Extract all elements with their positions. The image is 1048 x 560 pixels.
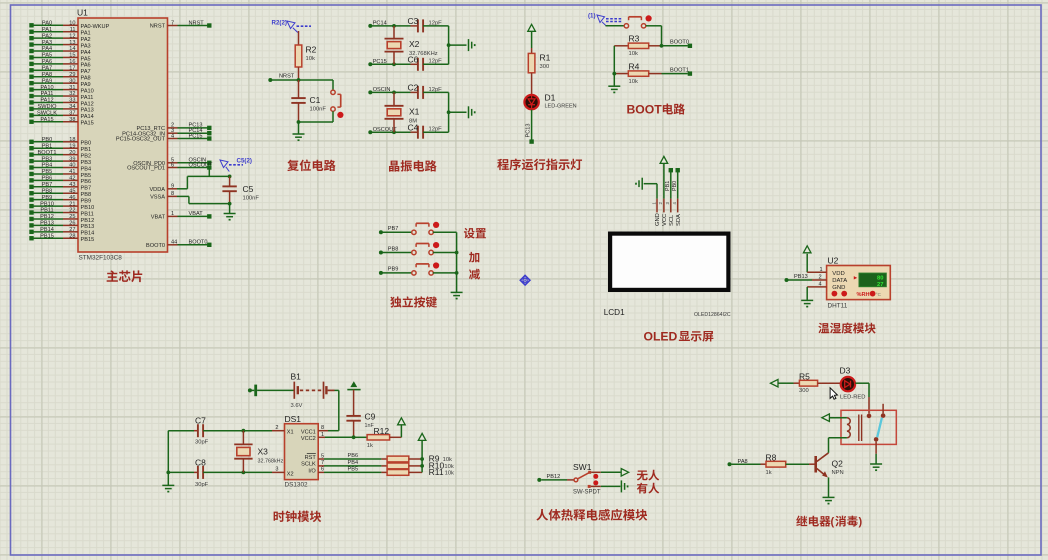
net label BOOT0 [670,40,689,46]
svg-text:R11: R11 [429,467,444,477]
resistor R4 [614,71,661,76]
wire emitter to ground [828,477,830,497]
svg-text:PA7: PA7 [81,69,91,75]
svg-text:C7: C7 [195,416,206,426]
svg-text:C5(2): C5(2) [237,157,252,164]
svg-text:VCC: VCC [662,214,668,226]
C9 reference label [365,412,376,422]
svg-text:PB6: PB6 [348,453,359,459]
wire to side ground [449,44,467,46]
caption 继电器(消毒) [796,516,862,528]
wire PB12 to switch [541,479,574,481]
C3 reference label [408,16,419,26]
C2 reference label [408,83,419,93]
B1 value 3.6V [291,403,303,409]
svg-text:PB1: PB1 [665,181,671,191]
terminal PB9 [379,267,398,275]
svg-text:PB7: PB7 [42,182,53,188]
svg-text:VDD: VDD [832,271,844,277]
pin PA5 (15) wire + net label [29,53,90,63]
svg-text:PB7: PB7 [388,226,399,232]
svg-text:PB5: PB5 [81,173,92,179]
C8 reference label [195,457,206,467]
svg-text:▶: ▶ [854,275,858,280]
svg-text:OLED: OLED [644,330,678,344]
svg-text:43: 43 [69,182,75,188]
svg-text:PB6: PB6 [81,179,92,185]
X1 reference label [409,106,420,116]
pin PB1 (19) wire + net label [29,143,91,153]
LCD1 reference label [604,308,625,317]
crystal X1 [385,92,404,132]
svg-text:1: 1 [321,432,324,438]
svg-text:6: 6 [171,162,174,168]
push button PB8 [412,242,440,255]
svg-text:4: 4 [819,282,822,288]
R4 value 10k [629,79,638,85]
svg-text:BOOT0: BOOT0 [189,240,208,246]
R2 reference label [306,45,317,55]
R3 value 10k [629,51,638,57]
svg-text:PA4: PA4 [42,46,52,52]
svg-text:DHT11: DHT11 [828,303,848,310]
pin label SCL [669,214,675,226]
svg-text:PB15: PB15 [40,233,54,239]
pin 8 VCC1 wire [318,425,328,431]
pin 2 X1 wire [243,425,284,431]
resistor R12 [354,435,402,440]
svg-text:PB11: PB11 [81,211,94,217]
svg-text:39: 39 [69,156,75,162]
svg-text:12pF: 12pF [429,20,443,26]
svg-text:C2: C2 [408,83,419,93]
svg-text:PB12: PB12 [547,474,561,480]
svg-text:PB8: PB8 [388,246,399,252]
wire D3 to relay contact [855,383,869,413]
svg-text:1: 1 [820,267,823,273]
wire button bottom [332,111,334,122]
U2 reference label [828,255,839,265]
svg-text:RST: RST [305,455,317,461]
svg-text:PB9: PB9 [42,195,53,201]
svg-text:PB0: PB0 [42,137,53,143]
terminal BOOT1 [688,71,692,75]
R10 reference label [429,460,454,470]
pin PB15 (28) wire + net label [29,233,94,243]
D3 reference label [840,365,851,375]
wire OSCOUT row [370,130,410,134]
svg-text:NRST: NRST [189,20,205,26]
push button reset [331,90,344,118]
R2 value 10k [306,56,315,62]
svg-text:D3: D3 [840,365,851,375]
svg-text:SCL: SCL [669,214,675,226]
svg-text:10k: 10k [629,51,638,57]
switch SW1 SW-SPDT [574,471,598,488]
pin PB12 (25) wire + net label [29,214,94,224]
caption 减 [469,269,480,280]
svg-text:40: 40 [69,163,75,169]
C5 value 100nF [243,196,260,202]
R5 reference label [799,371,810,381]
svg-text:SW-SPDT: SW-SPDT [573,489,601,495]
svg-text:PA13: PA13 [81,108,94,114]
svg-text:2: 2 [819,275,822,281]
svg-text:PB5: PB5 [42,169,53,175]
wire PB7 to button [381,231,412,233]
svg-text:PB8: PB8 [81,192,92,198]
relay RL1 body [841,410,896,444]
C8 value 30pF [195,482,209,488]
terminal OSCIN [368,87,390,94]
resistor R11 [381,470,422,476]
R8 value 1k [766,470,772,476]
svg-text:%RH: %RH [857,292,870,298]
C5 reference label [243,184,254,194]
push button PB7 [412,222,440,235]
svg-text:PA10: PA10 [81,88,94,94]
svg-text:PA15: PA15 [81,121,94,127]
svg-text:C4: C4 [408,122,419,132]
capacitor C8 [194,466,243,479]
svg-text:BOOT0: BOOT0 [670,40,689,46]
pin 1 VCC2 wire [318,432,353,438]
arrow terminal relay coil [822,414,830,422]
svg-text:C8: C8 [195,457,206,467]
pin PB0 (18) wire + net label [29,137,91,147]
pin OSCOUT_PD1 (6) net OSCOUT [127,162,213,171]
svg-text:GND: GND [832,285,845,291]
pin 5 RST wire net PB6 [318,453,381,459]
wire button to corner [646,26,662,46]
relay contacts [867,404,886,442]
svg-text:NPN: NPN [832,470,844,476]
caption 程序运行指示灯 [497,159,582,171]
svg-text:X1: X1 [409,106,420,116]
svg-text:10k: 10k [444,464,453,470]
svg-text:B1: B1 [291,372,302,382]
pin VSSA (8) wire [150,191,189,200]
LED D1 [524,95,538,109]
pin PB5 (41) wire + net label [29,169,91,179]
capacitor C7 [194,424,243,437]
net label PC13 vertical [526,124,532,138]
wire PC15 row [370,62,410,66]
pin label VCC [662,214,668,226]
svg-text:PA5: PA5 [81,56,91,62]
svg-text:31: 31 [69,85,75,91]
pin PB11 (22) wire + net label [29,208,93,218]
OLED pin 3 SCL [665,199,671,213]
pin VDDA (9) wire [149,184,187,193]
svg-text:44: 44 [171,240,177,246]
svg-text:PB12: PB12 [40,214,54,220]
svg-text:30pF: 30pF [195,482,209,488]
pin PA9 (30) wire + net label [29,78,90,88]
svg-text:R2(2): R2(2) [272,20,287,27]
svg-text:PA5: PA5 [42,53,52,59]
svg-text:34: 34 [69,104,75,110]
caption 主芯片 [107,270,143,282]
svg-text:PC15-OSC32_OUT: PC15-OSC32_OUT [116,137,166,143]
svg-text:BOOT0: BOOT0 [146,243,165,249]
arrow terminal R5 input [771,379,794,387]
wire upper throw [591,471,621,473]
U2 indicator dots [832,291,882,298]
svg-text:10: 10 [69,21,75,27]
wire to BOOT1 terminal [662,73,688,75]
svg-text:PA2: PA2 [42,33,52,39]
svg-text:X3: X3 [258,447,269,457]
wire VSSA loop bottom [189,196,230,203]
crystal X2 [385,26,404,64]
Q2 value NPN [832,470,844,476]
crystal X3 [234,429,252,474]
svg-text:19: 19 [69,143,75,149]
pin PB7 (43) wire + net label [29,182,91,192]
ground clock left [162,485,174,491]
U2 value DHT11 [828,303,848,310]
svg-text:14: 14 [69,46,75,52]
resistor R2 [295,45,302,67]
terminal PB13 [785,278,789,282]
caption 独立按键 [390,296,437,307]
wire button PB8 to bus [433,252,457,254]
resistor R1 [528,53,535,72]
pin PA6 (16) wire + net label [29,59,90,69]
svg-text:30: 30 [69,78,75,84]
ground below C5 [224,214,236,220]
svg-text:C5: C5 [243,184,254,194]
wire OSCOUT terminal to C5 net [208,170,210,177]
svg-text:6: 6 [321,467,324,473]
svg-text:C9: C9 [365,412,376,422]
caption BOOT电路 [627,103,685,117]
relay core [859,415,862,442]
pin PA7 (17) wire + net label [29,66,90,76]
power terminal DHT11 VCC [803,246,811,272]
pin 6 I/O wire net PB5 [318,466,381,472]
LCD1 OLED display body [608,232,731,293]
svg-text:DS1302: DS1302 [285,482,309,489]
D1 reference label [545,93,556,103]
wire GND to ground [806,287,808,300]
svg-text:C6: C6 [408,55,419,65]
wire left bus to ground [612,46,616,86]
wire PB8 to button [381,252,412,254]
wire relay common to ground [875,442,877,464]
IC DS1 DS1302 body [285,424,319,480]
svg-text:80: 80 [877,275,883,281]
svg-text:PA9: PA9 [42,78,52,84]
wire D1 to PC13 terminal [531,110,533,142]
C2 value 12pF [429,87,443,93]
pin PA4 (14) wire + net label [29,46,90,56]
C7 value 30pF [195,440,209,446]
wire button PB9 to bus [433,272,457,274]
capacitor C1 [291,80,305,122]
junction at C5 bottom [228,202,232,206]
capacitor C2 [411,86,449,99]
blue route marker (1) [588,13,622,26]
side ground [469,106,475,118]
svg-text:12pF: 12pF [429,127,443,133]
svg-text:PC15: PC15 [189,133,203,139]
svg-text:VBAT: VBAT [189,211,204,217]
svg-text:PB9: PB9 [81,198,92,204]
pin SWCLK (37) wire + net label [29,111,93,121]
terminal OSCOUT [368,127,397,134]
X3 reference label [258,447,269,457]
svg-text:PB1: PB1 [42,143,53,149]
wire to BOOT0 terminal [662,45,688,47]
svg-text:U1: U1 [77,8,88,18]
svg-text:PB4: PB4 [42,163,53,169]
svg-text:PB0: PB0 [672,181,678,191]
R3 reference label [629,34,640,44]
wire GND pin to side ground [644,184,657,199]
svg-text:PB9: PB9 [388,267,399,273]
pin PB4 (40) wire + net label [29,163,91,173]
svg-text:33: 33 [69,98,75,104]
wire C5 to ground [229,204,231,213]
svg-text:PB15: PB15 [81,237,95,243]
terminal PC15 [368,59,386,66]
arrow terminal upper [621,469,629,477]
mouse cursor [830,388,837,399]
terminal PB12 [537,474,560,482]
svg-text:PB7: PB7 [81,186,92,192]
SW1 reference label [573,462,592,472]
pin PB9 (46) wire + net label [29,195,91,205]
wire to button top [332,80,334,90]
wire right bus keys [455,232,459,292]
relay coil [829,418,851,438]
svg-text:PA7: PA7 [42,66,52,72]
svg-text:PB10: PB10 [40,201,54,207]
pin BOOT1 (20) wire + net label [29,150,91,160]
svg-text:D1: D1 [545,93,556,103]
pin PB6 (42) wire + net label [29,176,91,186]
pin PB8 (45) wire + net label [29,188,91,198]
X2 value 32.768KHz [409,51,438,57]
svg-text:3: 3 [275,467,278,473]
svg-text:PA12: PA12 [81,101,94,107]
pin PB14 (27) wire + net label [29,227,94,237]
pin PA3 (13) wire + net label [29,40,90,50]
OLED pin 1 GND [651,199,657,213]
svg-text:27: 27 [69,227,75,233]
svg-text:5: 5 [321,453,324,459]
pin PA11 (32) wire + net label [29,91,93,101]
wire into BOOT button [606,25,625,27]
svg-text:16: 16 [69,59,75,65]
C1 reference label [310,95,321,105]
pin PA10 (31) wire + net label [29,85,93,95]
svg-text:PB13: PB13 [40,221,54,227]
svg-text:46: 46 [69,195,75,201]
terminal PB7 [379,226,398,234]
junction BOOT0 node [660,44,664,48]
svg-text:BOOT1: BOOT1 [670,67,689,73]
DS1 pin labels [287,429,317,477]
C7 reference label [195,416,206,426]
X1 value 8M [409,118,417,124]
pin 3 X2 wire [243,467,284,473]
sensor U2 DHT11 body [827,266,891,300]
pin PC14-OSC32_IN (3) net PC14 [122,128,211,137]
svg-text:OLED12864I2C: OLED12864I2C [694,312,731,318]
C9 value 1nF [365,423,375,429]
pin PA12 (33) wire + net label [29,98,93,108]
svg-text:VCC1: VCC1 [301,429,316,435]
svg-text:PA1: PA1 [81,31,91,37]
pin 7 SCLK wire net PB4 [318,460,381,466]
svg-text:28: 28 [69,233,75,239]
R5 value 300 [799,388,809,394]
transistor Q2 NPN [816,453,829,477]
R11 reference label [429,467,454,477]
wire NRST node horizontal [270,78,333,82]
wire to R2 top [298,31,300,45]
svg-text:SDA: SDA [676,214,682,226]
X2 reference label [409,39,420,49]
svg-text:R3: R3 [629,34,640,44]
svg-text:300: 300 [799,388,809,394]
wire right bus [447,92,451,132]
svg-text:PA0: PA0 [42,21,52,27]
svg-text:22: 22 [69,208,75,214]
svg-text:R1: R1 [540,53,551,63]
wire pullup bus [420,441,424,473]
R9 reference label [429,454,452,464]
svg-text:29: 29 [69,72,75,78]
svg-text:LED-GREEN: LED-GREEN [545,104,577,110]
svg-text:(: ( [831,516,835,528]
svg-text:PB3: PB3 [42,156,53,162]
caption 无人 [637,470,659,481]
R12 value 1k [367,443,373,449]
svg-text:SWCLK: SWCLK [37,111,57,117]
svg-text:10k: 10k [306,56,315,62]
ground DHT11 [801,300,813,306]
resistor R5 [794,380,841,386]
svg-text:NRST: NRST [150,24,166,30]
svg-text:PB0: PB0 [81,141,92,147]
svg-text:C3: C3 [408,16,419,26]
svg-text:15: 15 [69,53,75,59]
svg-text:PA12: PA12 [40,98,53,104]
svg-text:100nF: 100nF [310,107,327,113]
ground reset circuit [293,134,305,140]
svg-text:°C: °C [876,292,882,297]
pin 4 GND wire [807,282,826,288]
svg-text:R8: R8 [766,452,777,462]
side ground [469,39,475,51]
C1 value 100nF [310,107,327,113]
LED D3 [841,377,855,391]
IC U1 STM32F103C8 body [78,18,168,252]
capacitor C5 [222,176,236,203]
pin OSCIN_PD0 (5) net OSCIN [133,158,211,167]
X3 value 32.768kHz [258,458,284,464]
wire R2 bottom to NRST node [298,67,300,80]
pin VBAT (1) net VBAT [151,211,212,220]
terminal SDA net PB0 [672,168,680,199]
wire to R1 [531,48,533,53]
svg-text:STM32F103C8: STM32F103C8 [79,255,123,262]
junction VCC2 C9 [352,435,356,439]
